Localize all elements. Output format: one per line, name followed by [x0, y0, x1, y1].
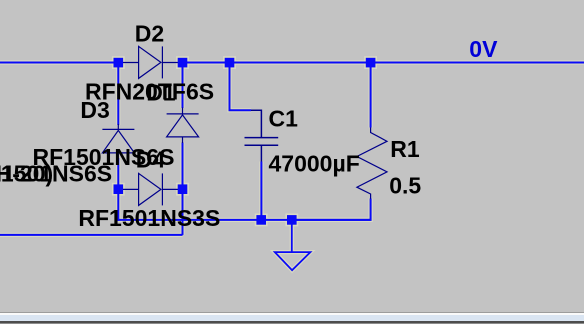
junction C1 bottom node	[256, 215, 266, 225]
status bar dark bottom edge	[0, 321, 584, 323]
wire R1 bottom lead	[292, 199, 371, 220]
diode D4	[122, 173, 179, 205]
wire C1 branch from top rail	[230, 63, 252, 111]
ground symbol	[275, 220, 311, 270]
junction node B (top rail / D2 cathode / right rail)	[178, 58, 188, 68]
wire top rail 0V net, left segment	[0, 62, 118, 64]
diode D2	[122, 46, 179, 78]
wire bottom-left AC lead to left edge	[0, 234, 183, 236]
window frame bottom row	[0, 323, 584, 324]
svg-text:D1: D1	[146, 79, 176, 105]
status bar body	[0, 315, 584, 321]
svg-text:D3: D3	[80, 97, 109, 123]
junction node A (top rail / D2 anode / left rail)	[114, 58, 124, 68]
capacitor C1	[245, 110, 279, 161]
wire halo artifact (pale sharpening fringe around bright wires)	[0, 63, 584, 271]
svg-text:R1: R1	[390, 136, 420, 162]
svg-text:RF1501NS6S: RF1501NS6S	[0, 160, 112, 186]
svg-text:0.5: 0.5	[389, 173, 421, 199]
svg-text:D4: D4	[136, 147, 166, 173]
resistor R1	[357, 128, 387, 199]
svg-text:47000µF: 47000µF	[269, 151, 360, 177]
wire top rail 0V net, right segment	[183, 62, 584, 64]
status bar separator line	[0, 312, 584, 313]
junction D4 right node	[178, 184, 188, 194]
junction halo artifacts	[112, 56, 377, 226]
svg-text:RF1501NS3S: RF1501NS3S	[78, 205, 220, 231]
status bar white highlight	[0, 313, 584, 315]
wire right rail upper (node B down to D1 cathode)	[182, 63, 184, 109]
wire right rail lower (D1 anode through D4 right junction down)	[182, 143, 184, 235]
svg-text:D2: D2	[135, 21, 164, 47]
wire left rail upper (node A down to D3 cathode)	[117, 63, 119, 126]
svg-text:C1: C1	[269, 106, 299, 132]
wire bottom output rail	[118, 219, 370, 221]
diode D1	[167, 108, 199, 144]
wire C1 bottom lead	[260, 162, 262, 220]
wire R1 branch from top rail	[370, 63, 372, 128]
svg-text:0V: 0V	[469, 36, 498, 62]
junction ground node	[287, 215, 297, 225]
diode D3	[102, 124, 134, 159]
junction C1 top tap on 0V rail	[225, 58, 235, 68]
wire left rail lower (D3 anode to D4 left junction to bottom rail)	[117, 158, 119, 221]
junction R1 top tap on 0V rail	[366, 58, 376, 68]
junction D4 left node	[114, 184, 124, 194]
